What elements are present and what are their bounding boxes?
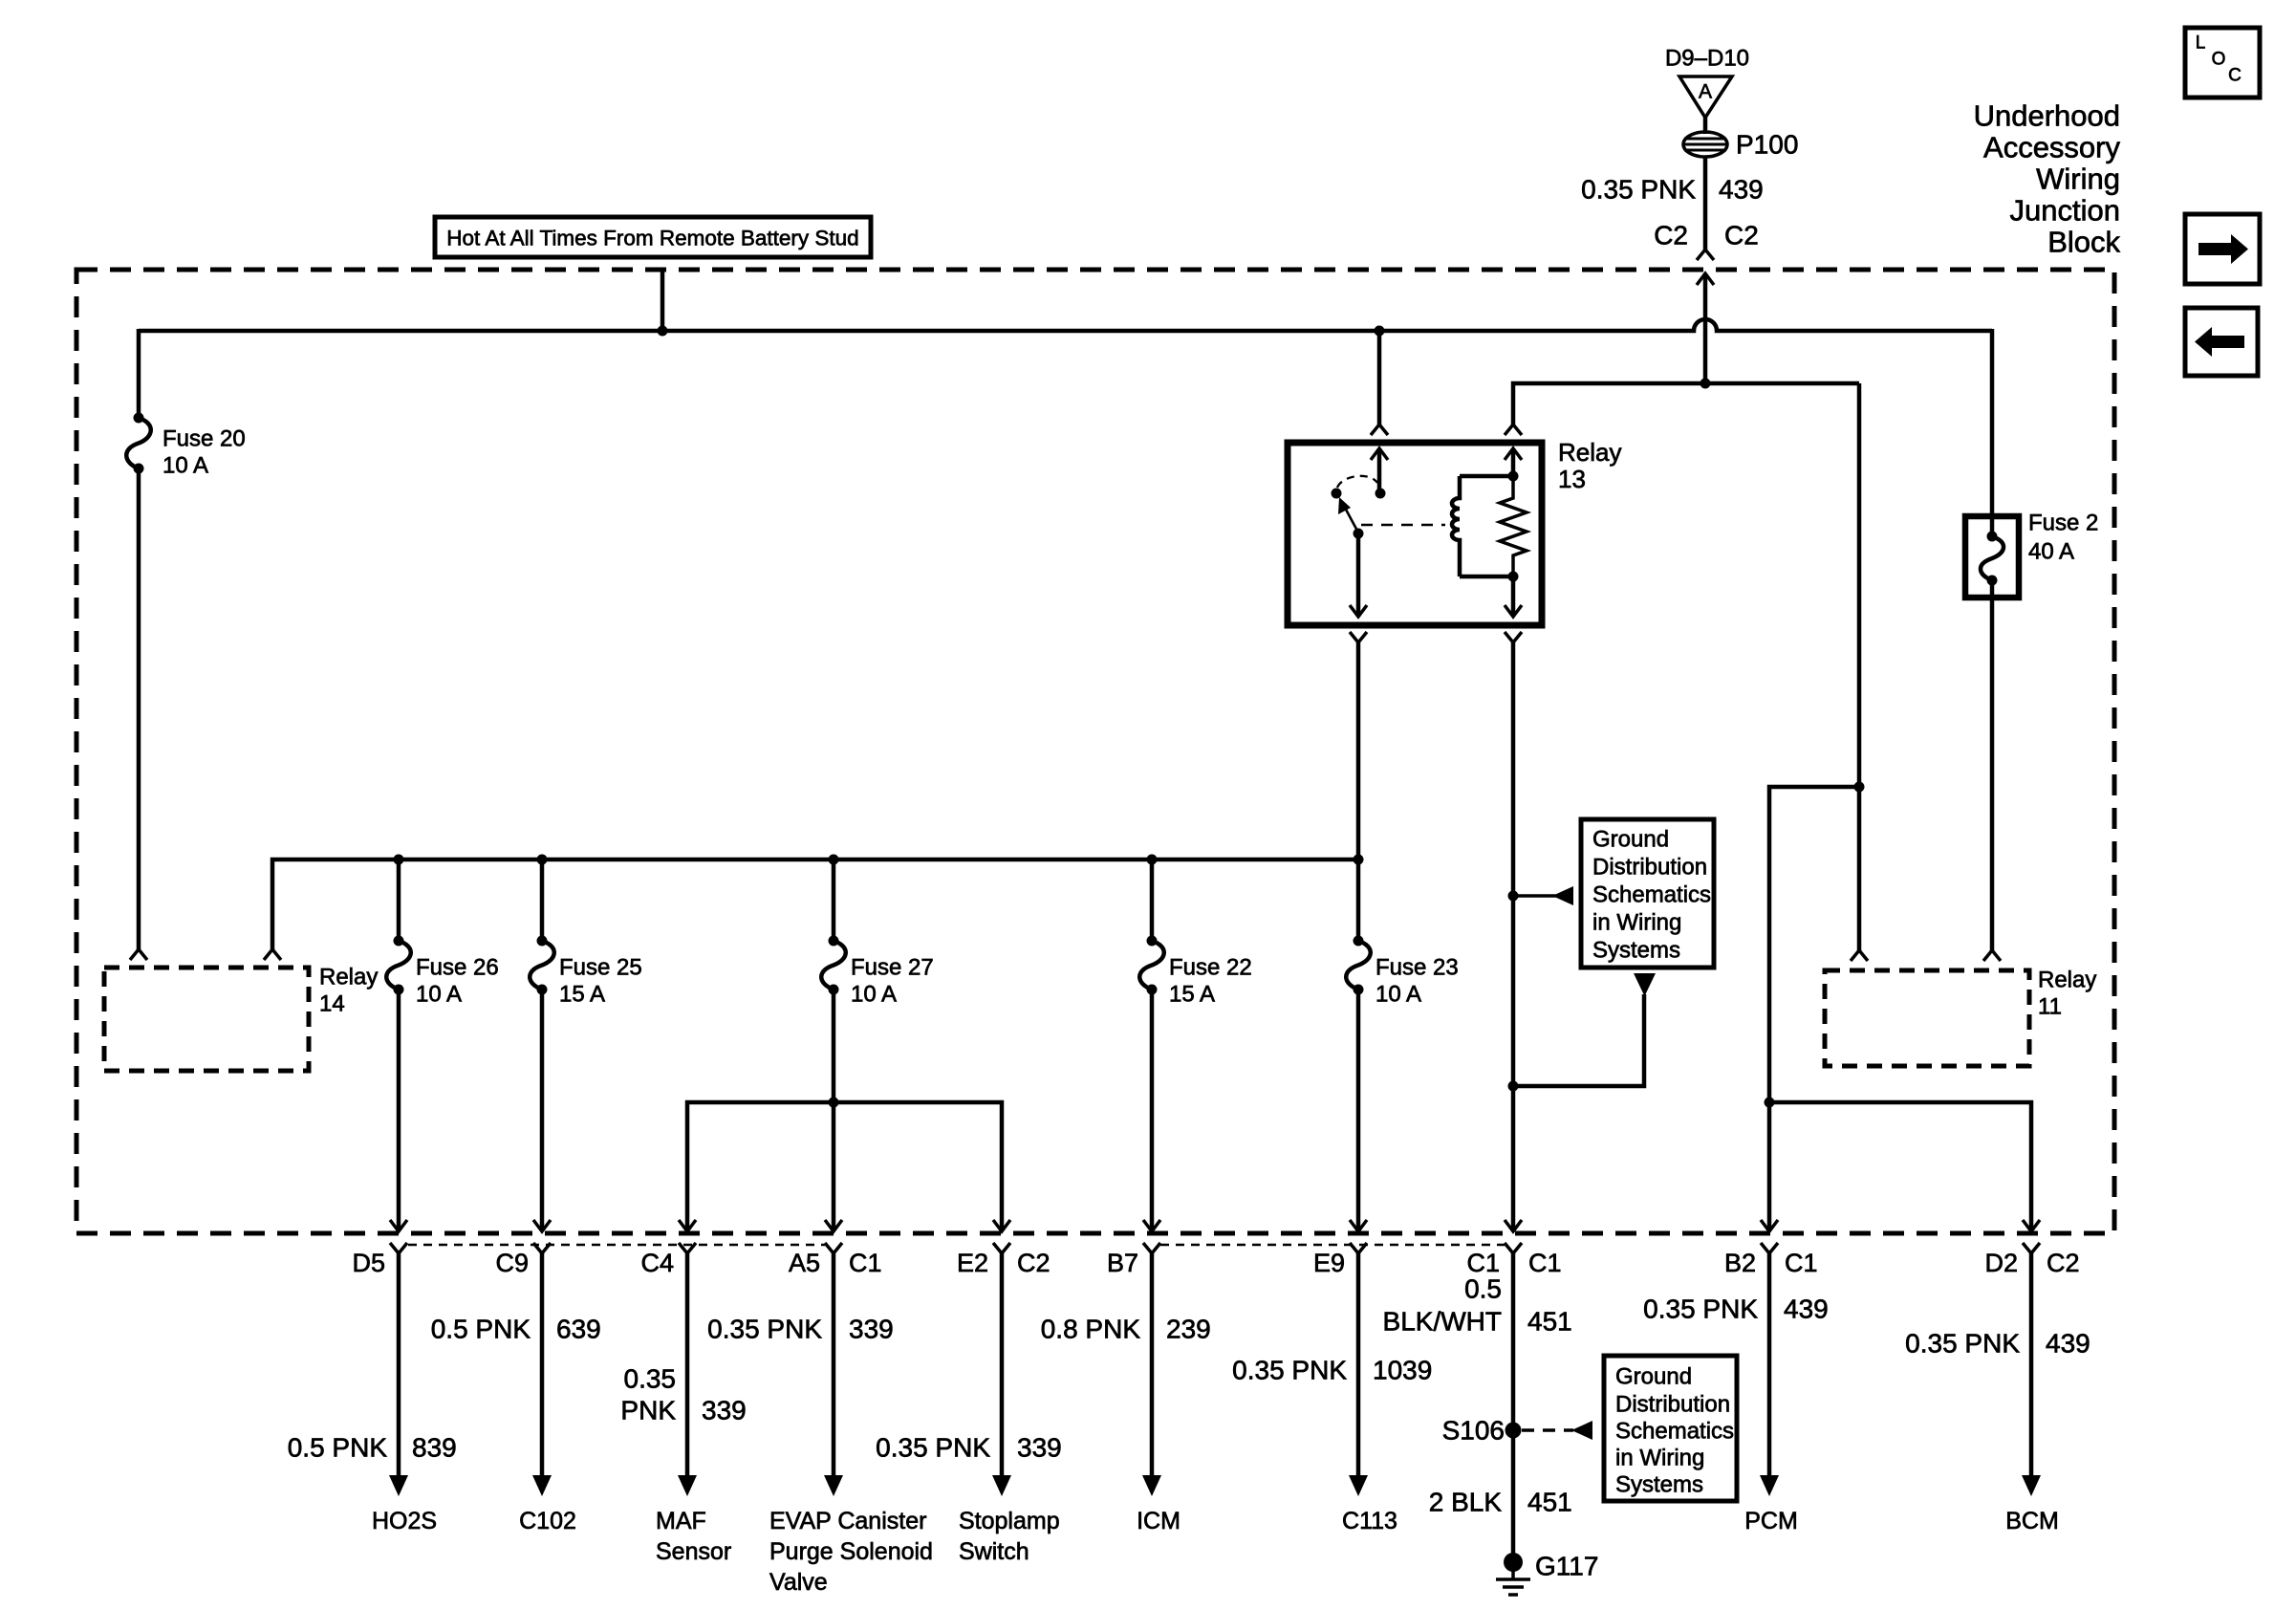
wire fuse 22 to B7 exit	[1150, 990, 1155, 1231]
svg-text:2 BLK: 2 BLK	[1429, 1488, 1503, 1517]
wire distribution node horizontal	[1513, 383, 1859, 424]
wire inner bus to fuse 25	[540, 859, 545, 941]
label Relay 14	[319, 965, 378, 1017]
svg-text:C2: C2	[1724, 221, 1759, 250]
junction: fuse 26 tap on inner bus	[394, 855, 404, 865]
relay 13 switch arm	[1338, 497, 1358, 533]
connector C4 at block bottom	[640, 1220, 696, 1277]
svg-text:Fuse 22: Fuse 22	[1169, 955, 1252, 981]
junction: battery feed on bus	[658, 326, 668, 337]
label C113	[1342, 1508, 1397, 1534]
label Fuse 26 10 A	[416, 955, 499, 1008]
svg-text:0.8 PNK: 0.8 PNK	[1041, 1315, 1141, 1344]
junction: fuse 27 tap on inner bus	[829, 855, 839, 865]
fuse F23	[1346, 936, 1371, 995]
connector face line (fine dashed) segment 1	[408, 1244, 825, 1247]
wire battery stud feed into block	[661, 271, 665, 331]
svg-text:0.35 PNK: 0.35 PNK	[1905, 1329, 2020, 1359]
junction: relay 13 feed on bus	[1375, 326, 1385, 337]
svg-text:1039: 1039	[1373, 1356, 1432, 1385]
svg-text:C1: C1	[1528, 1249, 1562, 1277]
svg-text:10 A: 10 A	[851, 982, 897, 1008]
svg-text:Fuse 20: Fuse 20	[162, 426, 246, 452]
svg-text:Relay: Relay	[2038, 968, 2096, 993]
wire branch to BCM feed	[1769, 1102, 2031, 1231]
svg-text:PCM: PCM	[1744, 1508, 1798, 1534]
svg-text:in Wiring: in Wiring	[1615, 1446, 1704, 1471]
relay 13 box	[1288, 443, 1542, 625]
grommet P100	[1683, 132, 1727, 157]
wire fuse 25 to C9 exit	[540, 990, 545, 1231]
ground distribution callout box 2	[1604, 1356, 1737, 1501]
svg-text:A5: A5	[789, 1249, 820, 1277]
label 0.35 PNK 339 (stoplamp)	[876, 1433, 1062, 1463]
label HO2S	[372, 1508, 437, 1534]
fuse F26	[386, 936, 411, 995]
svg-text:E9: E9	[1313, 1249, 1345, 1277]
wire bus down to Fuse 2	[1990, 329, 1995, 536]
junction: fuse 27 wire on EVAP branch	[829, 1098, 839, 1108]
svg-text:339: 339	[702, 1396, 747, 1425]
label 2 BLK 451	[1429, 1488, 1572, 1517]
svg-text:Systems: Systems	[1592, 938, 1680, 964]
wire relay 13 switch output to pin 87	[1356, 533, 1361, 617]
label Relay 11	[2038, 968, 2096, 1020]
svg-text:451: 451	[1527, 1307, 1572, 1337]
connector C2 halves at block boundary	[1697, 250, 1714, 285]
svg-text:C2: C2	[2047, 1249, 2080, 1277]
svg-text:C102: C102	[519, 1508, 576, 1534]
label D9-D10	[1665, 46, 1749, 72]
fuse F27	[821, 936, 846, 995]
svg-text:Underhood: Underhood	[1974, 99, 2120, 133]
svg-text:Ground: Ground	[1592, 827, 1669, 853]
svg-text:Valve: Valve	[769, 1569, 828, 1596]
ground G117	[1496, 1552, 1598, 1596]
connector pin into relay 14 (left)	[130, 949, 147, 960]
svg-text:PNK: PNK	[620, 1396, 676, 1425]
wire D2 to BCM	[2022, 1253, 2041, 1496]
wire inner bus to fuse 27	[832, 859, 836, 941]
svg-text:0.5 PNK: 0.5 PNK	[288, 1433, 388, 1463]
svg-text:439: 439	[1719, 175, 1764, 205]
svg-text:13: 13	[1558, 465, 1586, 493]
relay 13 pin 85 connector halves (bottom right)	[1505, 605, 1522, 642]
svg-text:0.35: 0.35	[624, 1364, 677, 1394]
wire branch to PCM feed	[1769, 787, 1859, 1231]
connector pin into relay 11 (right)	[1983, 950, 2001, 961]
relay 13 pin 30 connector halves (top left)	[1371, 424, 1388, 460]
label Stoplamp Switch	[959, 1508, 1060, 1565]
svg-text:15 A: 15 A	[1169, 982, 1215, 1008]
svg-text:P100: P100	[1736, 130, 1798, 160]
svg-text:ICM: ICM	[1137, 1508, 1180, 1534]
wire fuse 26 to D5 exit	[397, 990, 401, 1231]
svg-text:C: C	[2228, 66, 2242, 86]
svg-text:11: 11	[2038, 994, 2062, 1020]
svg-text:40 A: 40 A	[2028, 539, 2074, 565]
label PCM	[1744, 1508, 1798, 1534]
svg-text:10 A: 10 A	[162, 453, 208, 479]
wire inner bus to fuse 26	[397, 859, 401, 941]
label BCM	[2005, 1508, 2059, 1534]
label 0.35 PNK 339 (EVAP)	[707, 1315, 894, 1344]
label C102	[519, 1508, 576, 1534]
junction: BCM branch	[1765, 1098, 1775, 1108]
svg-text:239: 239	[1166, 1315, 1211, 1344]
nav box LOC	[2185, 28, 2260, 98]
svg-text:EVAP Canister: EVAP Canister	[769, 1508, 926, 1534]
wire bus down to Fuse 20	[137, 329, 141, 418]
svg-text:14: 14	[319, 991, 345, 1017]
svg-text:15 A: 15 A	[559, 982, 605, 1008]
svg-text:G117: G117	[1535, 1552, 1598, 1581]
label 0.35 PNK 439	[1581, 175, 1764, 205]
connector face line (fine dashed) segment 2	[1160, 1244, 1505, 1247]
link line to ground distribution callout	[1513, 886, 1573, 905]
svg-text:BCM: BCM	[2005, 1508, 2059, 1534]
wire E9 to C113	[1349, 1253, 1368, 1496]
wire inner bus to fuse 23	[1356, 859, 1361, 941]
svg-text:Distribution: Distribution	[1615, 1392, 1730, 1418]
svg-text:10 A: 10 A	[416, 982, 462, 1008]
junction: ground schematic link 2	[1508, 1081, 1519, 1092]
wire C9 to C102	[532, 1253, 552, 1496]
svg-text:C4: C4	[640, 1249, 674, 1277]
wire S106 to ground	[1511, 1430, 1516, 1556]
svg-text:S106: S106	[1442, 1416, 1505, 1446]
svg-text:Fuse 2: Fuse 2	[2028, 511, 2098, 536]
svg-text:451: 451	[1527, 1488, 1572, 1517]
fuse F2	[1981, 532, 2004, 586]
wire relay 13 pin 86 to coil	[1511, 448, 1516, 476]
connector E9 at block bottom	[1313, 1220, 1367, 1277]
svg-text:MAF: MAF	[656, 1508, 706, 1534]
svg-text:C1: C1	[1466, 1249, 1500, 1277]
svg-text:B7: B7	[1107, 1249, 1138, 1277]
svg-text:C1: C1	[849, 1249, 882, 1277]
svg-text:0.35 PNK: 0.35 PNK	[1581, 175, 1696, 205]
wire hot bus (top horizontal)	[139, 319, 1992, 331]
svg-text:D2: D2	[1984, 1249, 2018, 1277]
wire B7 to ICM	[1142, 1253, 1161, 1496]
svg-text:839: 839	[412, 1433, 457, 1463]
connector B7 at block bottom	[1107, 1220, 1160, 1277]
svg-text:C1: C1	[1785, 1249, 1818, 1277]
svg-text:C2: C2	[1017, 1249, 1051, 1277]
label Relay 13	[1558, 438, 1621, 493]
wire C4 to MAF sensor	[678, 1253, 697, 1496]
svg-text:Switch: Switch	[959, 1538, 1029, 1565]
nav box arrow right	[2185, 214, 2260, 284]
nav box arrow left	[2185, 308, 2258, 376]
connector pin into relay 14 (right)	[264, 949, 281, 960]
label 0.35 PNK 1039	[1232, 1356, 1432, 1385]
wire Fuse 2 to relay 11	[1990, 580, 1995, 950]
junction: fuse 25 tap on inner bus	[537, 855, 548, 865]
wire inner bus to fuse 22	[1150, 859, 1155, 941]
wire 439 from P100 to junction block	[1703, 157, 1708, 250]
svg-text:A: A	[1699, 81, 1712, 103]
svg-text:Stoplamp: Stoplamp	[959, 1508, 1060, 1534]
svg-text:Relay: Relay	[319, 965, 378, 990]
svg-text:Fuse 23: Fuse 23	[1375, 955, 1459, 981]
wire A5 to EVAP valve	[824, 1253, 843, 1496]
label 0.5 PNK 639	[431, 1315, 601, 1344]
relay 13 coil top junction	[1508, 471, 1519, 482]
svg-text:C113: C113	[1342, 1508, 1397, 1534]
connector C9 at block bottom	[495, 1220, 551, 1277]
junction: ground schematic link 1	[1508, 891, 1519, 902]
svg-text:Fuse 25: Fuse 25	[559, 955, 642, 981]
connector D2/C2 at block bottom	[1984, 1220, 2079, 1277]
label P100	[1736, 130, 1798, 160]
svg-text:Distribution: Distribution	[1592, 855, 1707, 881]
connector pin into relay 11 (left)	[1851, 950, 1868, 961]
svg-text:Hot At All Times From Remote B: Hot At All Times From Remote Battery Stu…	[446, 227, 858, 250]
ground distribution callout box 1	[1581, 819, 1714, 968]
svg-text:HO2S: HO2S	[372, 1508, 437, 1534]
svg-text:339: 339	[1017, 1433, 1062, 1463]
wire triangle to grommet	[1703, 118, 1708, 134]
relay 13 pin 86 connector halves (top right)	[1505, 424, 1522, 460]
relay 13 switch pivot	[1332, 489, 1342, 499]
relay 13 switch common junction	[1375, 489, 1386, 499]
label 0.35 PNK 439 (PCM)	[1643, 1295, 1829, 1324]
wire D5 to HO2S	[389, 1253, 408, 1496]
wire fuse 23 to E9 exit	[1356, 990, 1361, 1231]
connector B2/C1 at block bottom	[1724, 1220, 1818, 1277]
wire EVAP branch horizontal	[687, 1102, 1002, 1231]
junction block boundary (dashed box)	[76, 270, 2114, 1233]
label EVAP Canister Purge Solenoid Valve	[769, 1508, 933, 1596]
wire relay 13 pin 87 to inner bus	[1356, 642, 1361, 859]
junction: relay 13 output on inner bus	[1354, 855, 1364, 865]
svg-text:D5: D5	[352, 1249, 385, 1277]
power source label box: Hot At All Times From Remote Battery Stud	[435, 217, 871, 257]
svg-text:D9–D10: D9–D10	[1665, 46, 1749, 72]
svg-text:Relay: Relay	[1558, 438, 1621, 467]
fuse F2 housing	[1965, 516, 2019, 598]
relay 13 coil suppression resistor	[1500, 476, 1527, 577]
svg-text:L: L	[2196, 33, 2206, 54]
svg-text:Purge Solenoid: Purge Solenoid	[769, 1538, 933, 1565]
relay 13 coil	[1452, 476, 1513, 577]
svg-text:Fuse 27: Fuse 27	[851, 955, 934, 981]
svg-text:639: 639	[556, 1315, 601, 1344]
svg-text:O: O	[2212, 50, 2226, 70]
connector D5 at block bottom	[352, 1220, 407, 1277]
wire bus to relay 13 switch pin	[1377, 331, 1382, 424]
label Underhood Accessory Wiring Junction Block	[1974, 99, 2121, 259]
wire relay 13 pin 30 to switch common	[1377, 448, 1382, 493]
relay 14 (not used, dashed outline)	[104, 968, 309, 1071]
svg-text:439: 439	[1784, 1295, 1829, 1324]
label 0.35 PNK 439 (BCM)	[1905, 1329, 2090, 1359]
wire B2 to PCM	[1760, 1253, 1779, 1496]
label 0.35 PNK 339 (MAF)	[620, 1364, 746, 1425]
label Fuse 2 40 A	[2028, 511, 2098, 565]
relay 13 switch output contact	[1354, 529, 1364, 539]
svg-text:339: 339	[849, 1315, 894, 1344]
svg-text:BLK/WHT: BLK/WHT	[1383, 1307, 1502, 1337]
svg-text:10 A: 10 A	[1375, 982, 1421, 1008]
label 0.5 BLK/WHT 451	[1383, 1274, 1572, 1337]
label Fuse 27 10 A	[851, 955, 934, 1008]
svg-text:0.5 PNK: 0.5 PNK	[431, 1315, 531, 1344]
svg-text:B2: B2	[1724, 1249, 1756, 1277]
svg-text:C9: C9	[495, 1249, 529, 1277]
svg-text:0.35 PNK: 0.35 PNK	[1643, 1295, 1758, 1324]
svg-text:Schematics: Schematics	[1592, 882, 1711, 908]
relay 13 pin 87 connector halves (bottom left)	[1350, 605, 1367, 642]
wire 451 from relay 13 pin 85 down	[1511, 642, 1516, 1231]
fuse F22	[1139, 936, 1164, 995]
junction: PCM branch	[1854, 782, 1865, 793]
svg-text:E2: E2	[957, 1249, 988, 1277]
label C2 | C2	[1654, 221, 1759, 250]
wire 451 to splice S106	[1511, 1253, 1516, 1430]
svg-text:Wiring: Wiring	[2036, 163, 2120, 196]
svg-text:C2: C2	[1654, 221, 1688, 250]
label 0.8 PNK 239	[1041, 1315, 1211, 1344]
label MAF Sensor	[656, 1508, 731, 1565]
svg-text:Junction: Junction	[2010, 194, 2120, 228]
link S106 to ground distribution callout (dashed)	[1522, 1421, 1592, 1440]
svg-text:in Wiring: in Wiring	[1592, 910, 1681, 936]
svg-text:0.35 PNK: 0.35 PNK	[707, 1315, 822, 1344]
label Fuse 20 10 A	[162, 426, 246, 479]
svg-text:Sensor: Sensor	[656, 1538, 731, 1565]
relay 13 switch thrown-position arc (dashed)	[1337, 476, 1377, 488]
wire Fuse 20 to Relay 14	[137, 468, 141, 949]
connector A5/C1 at block bottom	[789, 1220, 882, 1277]
connector triangle A	[1679, 76, 1732, 118]
svg-text:Ground: Ground	[1615, 1364, 1692, 1390]
wire node down toward relay 11	[1857, 383, 1862, 950]
label Fuse 23 10 A	[1375, 955, 1459, 1008]
svg-text:0.35 PNK: 0.35 PNK	[1232, 1356, 1347, 1385]
wire P100 feed down to distribution node	[1703, 273, 1708, 383]
wire inner fuse bus	[272, 859, 1358, 949]
relay 11 (not used, dashed outline)	[1825, 970, 2029, 1066]
label Fuse 22 15 A	[1169, 955, 1252, 1008]
junction: fuse 22 tap on inner bus	[1147, 855, 1158, 865]
svg-text:Fuse 26: Fuse 26	[416, 955, 499, 981]
relay 13 mechanical link (dashed)	[1361, 524, 1445, 527]
splice S106	[1442, 1416, 1522, 1446]
svg-text:Schematics: Schematics	[1615, 1419, 1734, 1445]
connector C1/C1 at block bottom	[1466, 1220, 1561, 1277]
wire relay 13 coil to pin 85	[1511, 577, 1516, 617]
label 0.5 PNK 839	[288, 1433, 457, 1463]
label ICM	[1137, 1508, 1180, 1534]
wire E2 to stoplamp switch	[992, 1253, 1011, 1496]
junction: P100 feed node	[1700, 379, 1711, 389]
svg-text:Systems: Systems	[1615, 1472, 1703, 1498]
connector E2/C2 at block bottom	[957, 1220, 1051, 1277]
fuse F25	[530, 936, 554, 995]
relay 13 coil bottom junction	[1508, 572, 1519, 582]
wire fuse 27 to A5 exit	[832, 990, 836, 1231]
svg-text:0.35 PNK: 0.35 PNK	[876, 1433, 990, 1463]
label Fuse 25 15 A	[559, 955, 642, 1008]
svg-text:Accessory: Accessory	[1983, 131, 2120, 164]
link line 2 from callout to wire 451	[1513, 973, 1656, 1086]
fuse F20	[126, 413, 151, 474]
svg-text:439: 439	[2046, 1329, 2090, 1359]
svg-text:0.5: 0.5	[1464, 1274, 1502, 1304]
svg-text:Block: Block	[2047, 226, 2120, 259]
